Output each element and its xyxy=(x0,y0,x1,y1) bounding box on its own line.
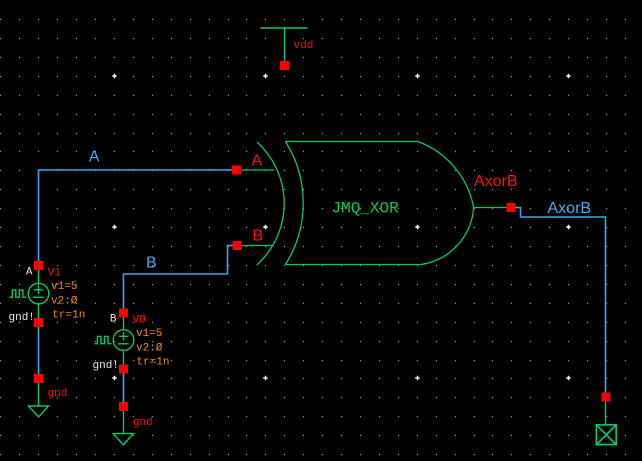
svg-text:V1: V1 xyxy=(48,267,62,279)
V1 bottom lead xyxy=(38,304,40,318)
svg-text:v1=5: v1=5 xyxy=(51,281,77,293)
svg-text:A: A xyxy=(252,153,263,170)
svg-text:B: B xyxy=(252,228,263,245)
V1 circle xyxy=(28,283,49,304)
vdd symbol xyxy=(260,28,307,62)
svg-text:gnd!: gnd! xyxy=(9,312,35,324)
V1 minus pin square xyxy=(34,318,43,327)
V0 circle xyxy=(113,330,134,351)
svg-text:B: B xyxy=(110,313,117,325)
output stub xyxy=(474,207,507,209)
output port box xyxy=(596,425,616,445)
pin A stub xyxy=(241,169,274,171)
V0 minus pin square xyxy=(119,365,128,374)
V1 to gnd blue wire xyxy=(38,327,40,374)
xor inner input arc xyxy=(285,142,303,265)
xor gate U0 body xyxy=(241,142,506,266)
V1 plus xyxy=(34,286,43,294)
svg-text:A: A xyxy=(89,149,100,166)
output noConn lead xyxy=(605,402,607,425)
pin B stub xyxy=(241,245,273,247)
V0 plus pin square xyxy=(119,309,128,318)
svg-text:A: A xyxy=(26,267,33,279)
gate pin A square xyxy=(232,166,241,175)
svg-text:gnd: gnd xyxy=(133,417,153,429)
gate top edge xyxy=(285,141,417,143)
gnd g1 symbol xyxy=(113,411,133,445)
gate right lower arc xyxy=(421,208,474,265)
V0 to gnd blue wire xyxy=(123,374,125,403)
V0 bottom lead xyxy=(123,350,125,364)
svg-text:AxorB: AxorB xyxy=(474,173,518,190)
svg-text:gnd: gnd xyxy=(48,388,68,400)
svg-text:tr=1n: tr=1n xyxy=(52,309,85,321)
output pin square bottom xyxy=(602,393,611,402)
gate right upper arc xyxy=(418,142,474,208)
wire net AxorB xyxy=(515,208,606,394)
gnd g0 symbol xyxy=(28,383,48,417)
svg-text:v2:Ø: v2:Ø xyxy=(136,343,163,355)
V0 minus xyxy=(118,343,129,345)
svg-text:tr=1n: tr=1n xyxy=(137,356,170,368)
gnd g1 pin square xyxy=(119,402,128,411)
gate pin B square xyxy=(233,241,242,250)
gate output pin square xyxy=(507,203,516,212)
V0 pulse glyph xyxy=(95,336,112,343)
V1 top lead xyxy=(38,270,40,284)
svg-text:v1=5: v1=5 xyxy=(136,328,162,340)
vdd pin square xyxy=(280,61,289,70)
svg-text:VØ: VØ xyxy=(133,314,147,326)
svg-text:v2:Ø: v2:Ø xyxy=(51,295,78,307)
svg-text:B: B xyxy=(146,254,157,271)
gnd g0 pin square xyxy=(34,374,43,383)
grid major crosses xyxy=(112,74,570,380)
V0 plus xyxy=(119,332,128,340)
source V1 xyxy=(9,270,48,318)
svg-text:vdd: vdd xyxy=(294,40,314,52)
V0 top lead xyxy=(123,317,125,330)
svg-text:gnd!: gnd! xyxy=(93,360,119,372)
V1 plus pin square xyxy=(34,261,43,270)
svg-text:AxorB: AxorB xyxy=(548,200,592,217)
xor outer input arc xyxy=(257,142,284,265)
svg-text:JMQ_XOR: JMQ_XOR xyxy=(332,200,400,218)
V1 pulse glyph xyxy=(9,290,26,297)
V1 minus xyxy=(33,296,44,298)
source V0 xyxy=(95,317,134,364)
wire net B xyxy=(124,246,233,309)
wire net A xyxy=(39,170,233,261)
gate bottom edge xyxy=(285,264,421,266)
